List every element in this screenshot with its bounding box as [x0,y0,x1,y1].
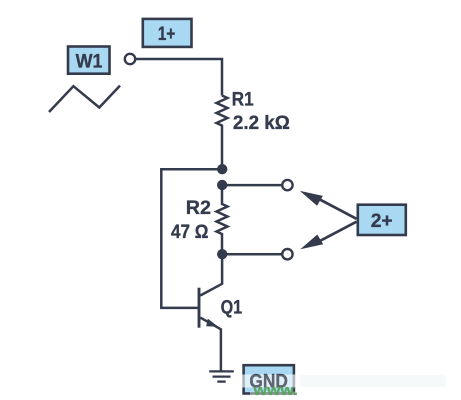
svg-text:2.2 kΩ: 2.2 kΩ [233,112,290,134]
svg-text:W1: W1 [76,51,103,73]
svg-text:2+: 2+ [371,210,393,232]
svg-text:1+: 1+ [158,23,175,45]
svg-text:Q1: Q1 [221,296,243,318]
svg-text:47 Ω: 47 Ω [171,221,209,243]
svg-text:R2: R2 [186,197,211,219]
svg-text:www.: www. [252,383,298,399]
svg-text:R1: R1 [232,89,254,111]
